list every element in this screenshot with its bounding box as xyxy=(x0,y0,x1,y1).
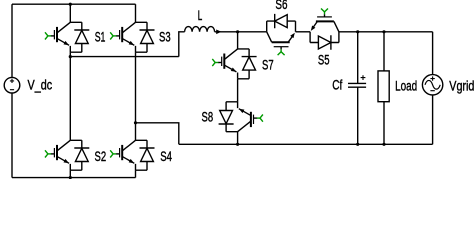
node dot top rail / S1 collector xyxy=(69,3,72,6)
resistor Load xyxy=(378,71,389,102)
node dot left-leg midpoint xyxy=(69,55,72,58)
svg-text:Load: Load xyxy=(395,79,417,94)
node dot bottom rail / S2 emitter xyxy=(69,176,72,179)
svg-text:S8: S8 xyxy=(202,109,214,124)
node dot S8 collector / return rail xyxy=(236,143,239,146)
transistor S5 (IGBT with antiparallel diode, horizontal) xyxy=(310,8,339,49)
capacitor Cf xyxy=(348,75,366,87)
current direction arrow xyxy=(216,30,221,35)
wire V_dc negative lead xyxy=(11,93,13,178)
node dot right-leg midpoint xyxy=(134,121,137,124)
svg-text:S7: S7 xyxy=(262,58,274,73)
node dot Load bottom xyxy=(382,143,385,146)
wire left-leg midpoint rail xyxy=(70,56,179,58)
inductor L xyxy=(185,27,215,32)
wire bottom return rail xyxy=(179,143,433,145)
wire S8 collector xyxy=(237,132,239,145)
transistor S4 (IGBT with antiparallel diode) xyxy=(110,140,154,170)
wire inductor to S6 xyxy=(215,31,267,33)
svg-text:S1: S1 xyxy=(95,29,106,44)
wire Vgrid bottom lead xyxy=(432,95,434,144)
node dot Cf bottom xyxy=(356,143,359,146)
node dot Cf top xyxy=(356,30,359,33)
wire bottom dc rail xyxy=(12,177,136,179)
svg-text:S4: S4 xyxy=(160,149,172,164)
wire S4 emitter xyxy=(135,170,137,177)
transistor S3 (IGBT with antiparallel diode) xyxy=(110,22,154,52)
wire V_dc positive lead xyxy=(11,4,13,77)
svg-text:S5: S5 xyxy=(318,52,330,67)
wire S6 emitter to S5 emitter xyxy=(296,31,311,33)
wire midpoint to inductor xyxy=(179,32,185,57)
wire S2 collector xyxy=(69,57,71,141)
wire S1 emitter to midpoint node xyxy=(69,52,71,56)
wire S7 collector xyxy=(237,32,239,49)
node dot L output / S7 collector xyxy=(236,30,239,33)
wire Load bottom lead xyxy=(383,102,385,145)
svg-text:S3: S3 xyxy=(159,29,171,44)
svg-text:V_dc: V_dc xyxy=(28,78,53,93)
ac source Vgrid xyxy=(422,75,442,95)
wire top dc rail xyxy=(12,3,136,5)
wire right-leg midpoint tap xyxy=(136,123,179,145)
wire S7 emitter to S8 emitter xyxy=(237,79,239,102)
transistor S7 (IGBT with antiparallel diode) xyxy=(212,49,256,79)
wire S2 emitter xyxy=(69,170,71,177)
transistor S6 (IGBT with antiparallel diode, horizontal) xyxy=(267,14,296,55)
node dot Load top xyxy=(382,30,385,33)
wire Cf bottom lead xyxy=(357,87,359,144)
wire S5 collector to grid top rail xyxy=(339,31,433,33)
wire Cf top lead xyxy=(357,32,359,84)
transistor S1 (IGBT with antiparallel diode) xyxy=(45,22,89,52)
wire Vgrid top lead xyxy=(432,32,434,75)
wire S3 collector xyxy=(135,4,137,22)
voltage source V_dc xyxy=(4,77,20,93)
transistor S2 (IGBT with antiparallel diode) xyxy=(45,140,89,170)
transistor S8 (IGBT with antiparallel diode, inverted) xyxy=(219,102,263,132)
svg-text:Vgrid: Vgrid xyxy=(449,79,474,94)
wire S3 emitter to S4 collector xyxy=(135,52,137,140)
svg-text:S6: S6 xyxy=(275,0,287,12)
wire Load top lead xyxy=(383,32,385,71)
svg-text:Cf: Cf xyxy=(332,78,342,93)
svg-text:S2: S2 xyxy=(95,149,107,164)
wire S1 collector xyxy=(69,4,71,22)
svg-text:L: L xyxy=(198,8,203,23)
